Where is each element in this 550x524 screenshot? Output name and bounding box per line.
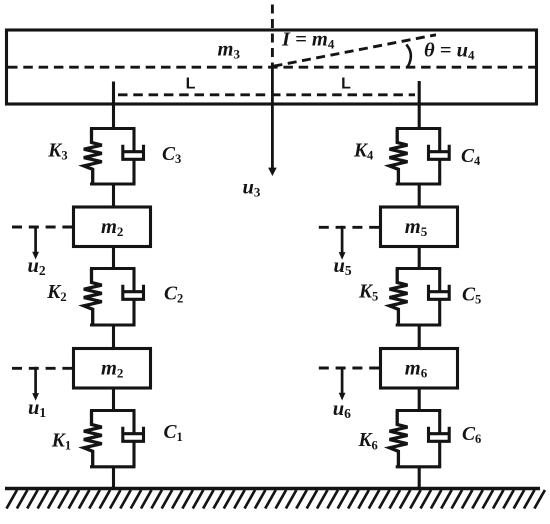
svg-text:m2: m2 (101, 216, 123, 239)
wire K3/C3 to mass m2 upper (112, 184, 115, 208)
beam mass m3 (body) (7, 30, 537, 104)
wire mass m5 to K5/C5 (418, 245, 421, 270)
wire K2/C2 to mass m2 lower (112, 325, 115, 350)
wire mass m6 to K6/C6 (418, 387, 421, 413)
spring K3 (84, 129, 102, 185)
svg-text:u5: u5 (334, 255, 352, 278)
spring K2 (84, 269, 102, 326)
u1 reference dashed line (12, 367, 73, 370)
svg-text:m2: m2 (101, 358, 123, 381)
damper C5 (429, 269, 450, 326)
u1 displacement arrow (32, 367, 39, 401)
svg-text:K1: K1 (51, 430, 71, 452)
mass m5 (381, 207, 458, 247)
u3 displacement arrow (268, 67, 277, 176)
ground line (5, 487, 540, 490)
svg-text:C4: C4 (461, 146, 481, 168)
L dimension dashed line (118, 93, 415, 96)
svg-text:C5: C5 (462, 285, 481, 307)
svg-text:C1: C1 (164, 422, 183, 444)
wire K6/C6 to ground (418, 467, 421, 489)
damper C6 (429, 411, 450, 467)
svg-text:L: L (341, 76, 351, 93)
damper C2 (123, 269, 144, 326)
svg-text:u1: u1 (28, 397, 46, 420)
wire beam to front unit (112, 82, 115, 131)
svg-text:C6: C6 (462, 424, 481, 446)
centroid vertical dashed line (271, 5, 274, 67)
spring K4 (390, 129, 408, 185)
u2 displacement arrow (32, 226, 39, 260)
damper C3 (123, 129, 144, 185)
wire mass m2 upper to K2/C2 (112, 245, 115, 270)
svg-text:u3: u3 (243, 177, 261, 200)
wire K1/C1 to ground (112, 467, 115, 489)
u6 reference dashed line (319, 367, 380, 370)
beam horizontal centerline (dashed) (8, 66, 535, 69)
spring-damper unit K6/C6 frame bars (396, 411, 442, 467)
rotated axis dashed line (theta) (274, 35, 437, 66)
svg-text:K4: K4 (353, 141, 374, 163)
u5 displacement arrow (339, 226, 346, 260)
svg-text:m3: m3 (218, 39, 241, 62)
svg-text:K2: K2 (46, 282, 66, 304)
svg-text:θ = u4: θ = u4 (424, 40, 475, 63)
u5 reference dashed line (319, 226, 380, 229)
wire beam to rear unit (418, 81, 421, 130)
mass m6 (381, 349, 458, 389)
svg-text:m6: m6 (405, 358, 428, 381)
u6 displacement arrow (339, 367, 346, 401)
wire K4/C4 to mass m5 (418, 184, 421, 208)
spring-damper unit K2/C2 frame bars (90, 269, 136, 326)
svg-text:m5: m5 (405, 216, 428, 239)
svg-text:K5: K5 (358, 281, 378, 303)
svg-text:K6: K6 (358, 430, 378, 452)
u2 reference dashed line (12, 226, 73, 229)
svg-text:K3: K3 (47, 141, 67, 163)
spring K6 (390, 411, 408, 467)
spring-damper unit K1/C1 frame bars (90, 411, 136, 467)
spring-damper unit K3/C3 frame bars (90, 129, 136, 185)
spring K5 (390, 269, 408, 326)
wire K5/C5 to mass m6 (418, 325, 421, 350)
svg-text:I = m4: I = m4 (281, 29, 335, 52)
svg-text:u2: u2 (28, 255, 46, 278)
spring K1 (84, 411, 102, 467)
damper C1 (123, 411, 144, 467)
wire mass m2 lower to K1/C1 (112, 387, 115, 413)
svg-text:C2: C2 (164, 284, 183, 306)
svg-text:C3: C3 (162, 144, 181, 166)
damper C4 (429, 129, 450, 185)
svg-text:L: L (186, 76, 196, 93)
angle arc (406, 45, 411, 67)
mass m2 (upper) (74, 207, 151, 247)
svg-text:u6: u6 (333, 398, 351, 421)
ground hatching (7, 490, 545, 509)
spring-damper unit K5/C5 frame bars (396, 269, 442, 326)
mass m2 (lower) (74, 349, 151, 389)
spring-damper unit K4/C4 frame bars (396, 129, 442, 185)
